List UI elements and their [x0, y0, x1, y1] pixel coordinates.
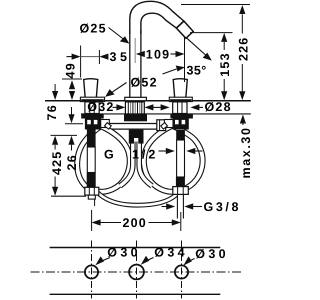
plan view top edge [50, 247, 221, 249]
right hose loop [144, 126, 203, 192]
dimension 35 [67, 46, 131, 78]
dimension 49 [62, 62, 82, 100]
svg-text:Ø30: Ø30 [195, 247, 229, 261]
label Ø30 right [183, 247, 229, 265]
left valve nut [85, 119, 101, 130]
left hose end fitting [157, 120, 166, 131]
dimension Ø52 label [105, 75, 158, 97]
svg-text:153: 153 [218, 52, 232, 76]
plan right hole Ø30 [175, 265, 188, 278]
label Ø34 [141, 246, 188, 265]
dimension max.30 [239, 115, 253, 179]
center shank below deck [125, 102, 144, 114]
plan horizontal centerline [31, 271, 242, 273]
dimension 109 [136, 38, 185, 83]
tee drop hose left [120, 142, 133, 187]
dimension 153 [190, 33, 233, 101]
svg-text:76: 76 [45, 104, 59, 120]
spout gooseneck curve [130, 1, 184, 34]
dimension 425 upper arrow [52, 84, 58, 100]
dimension G3/8 [162, 200, 242, 214]
left supply hose tube [87, 147, 95, 173]
svg-text:200: 200 [123, 216, 147, 230]
svg-text:109: 109 [146, 47, 170, 61]
center tee leg left [129, 138, 134, 144]
right valve angled fitting [161, 120, 173, 130]
dimension 26 [51, 135, 80, 170]
connecting tube between valves [103, 123, 170, 130]
left hose nut [85, 187, 99, 195]
svg-text:Ø25: Ø25 [80, 22, 107, 36]
right supply hose lower band [176, 177, 185, 187]
right hose nut [173, 187, 189, 195]
svg-text:Ø30: Ø30 [107, 246, 141, 260]
lower hose sweep [97, 192, 177, 205]
plan left hole Ø30 [85, 265, 98, 278]
dimension 35 degrees [163, 38, 212, 78]
plan middle hole centerline [136, 241, 138, 299]
left valve body shank [85, 102, 99, 114]
dimension 425 [50, 136, 86, 196]
left handle [84, 79, 98, 98]
dimension Ø28 [161, 100, 232, 114]
plan middle hole Ø34 [129, 265, 144, 280]
svg-text:425: 425 [50, 151, 64, 175]
svg-text:1/2: 1/2 [132, 148, 158, 162]
spout base plinth [125, 97, 147, 100]
deck bottom line [81, 113, 251, 115]
svg-text:Ø34: Ø34 [154, 246, 188, 260]
svg-text:max.30: max.30 [239, 127, 253, 179]
right valve flange [170, 114, 193, 119]
left valve angled fitting [101, 120, 112, 130]
dimension Ø32 [87, 100, 162, 114]
center tee body [129, 130, 144, 138]
deck top line [45, 100, 251, 102]
svg-text:26: 26 [65, 154, 79, 170]
dimension 226 [181, 5, 250, 101]
left hose stub [88, 195, 95, 206]
right escutcheon [169, 97, 192, 101]
right supply hose tube [177, 140, 185, 177]
dimension G 1/2 [104, 148, 203, 162]
right valve body shank [173, 102, 187, 114]
svg-text:G: G [104, 148, 115, 162]
center mounting flange nut [124, 114, 147, 121]
label Ø30 left [95, 246, 140, 266]
center tee leg right [138, 138, 143, 144]
dimension 76 [45, 104, 83, 124]
spout outlet aerator [176, 21, 193, 38]
svg-text:49: 49 [64, 62, 78, 78]
svg-text:Ø32: Ø32 [87, 100, 114, 114]
left escutcheon [80, 97, 104, 101]
plan right hole centerline [181, 241, 183, 299]
dimension Ø25 label [80, 22, 130, 44]
svg-text:Ø52: Ø52 [131, 75, 158, 89]
left supply hose lower band [87, 173, 96, 188]
plan view bottom edge [50, 293, 221, 295]
right valve nut [173, 119, 189, 130]
left supply hose upper band [87, 130, 96, 148]
svg-text:35°: 35° [187, 63, 207, 77]
left valve flange [81, 114, 104, 119]
right handle [173, 79, 187, 98]
svg-text:G3/8: G3/8 [204, 200, 242, 214]
plan left hole centerline [91, 241, 93, 299]
right hose stub [177, 194, 183, 218]
tee drop hose right [139, 142, 152, 187]
svg-text:226: 226 [236, 37, 250, 61]
left hose loop [77, 126, 130, 192]
spout riser tube [130, 30, 141, 97]
svg-text:35: 35 [110, 50, 131, 64]
right supply hose upper band [176, 130, 185, 140]
dimension 200 [92, 210, 181, 231]
svg-text:Ø28: Ø28 [205, 100, 232, 114]
